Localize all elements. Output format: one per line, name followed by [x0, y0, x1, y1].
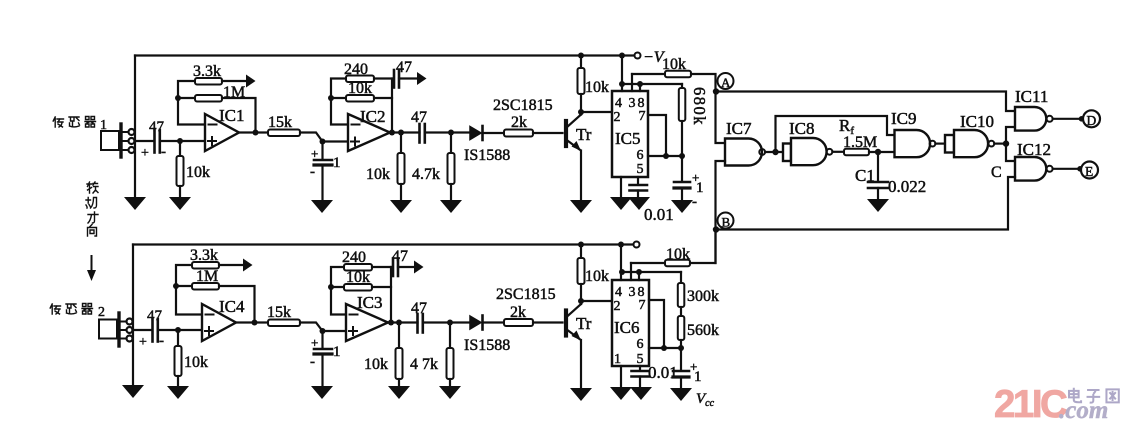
- svg-text:300k: 300k: [687, 288, 719, 305]
- op-amp IC1: [205, 106, 245, 151]
- resistor 10k (Tr top collector pull-up): [578, 56, 610, 115]
- ground (10k input top): [169, 197, 191, 210]
- wire pin7: [648, 115, 666, 156]
- node 4.7k junction: [448, 130, 454, 136]
- ground (sensor2 shield): [122, 385, 144, 398]
- wire pin1 stub: [620, 177, 622, 196]
- svg-text:+: +: [311, 146, 318, 161]
- rail open terminal: [635, 53, 641, 59]
- svg-text:1: 1: [333, 155, 341, 171]
- direction arrow down: [87, 256, 96, 281]
- svg-text:1: 1: [333, 344, 341, 360]
- ground (cap1 top): [311, 200, 333, 213]
- node junction input2: [175, 327, 181, 333]
- wire logic top rail: [716, 92, 1015, 112]
- svg-text:10k: 10k: [346, 269, 370, 286]
- svg-text:.com: .com: [1059, 397, 1108, 424]
- supply arrow (IC2): [417, 72, 427, 85]
- svg-text:1M: 1M: [196, 268, 218, 285]
- wire pin4 stub: [621, 56, 623, 92]
- node pin6-2 a: [661, 345, 667, 351]
- wire pin3 stub: [631, 74, 633, 91]
- node rail-10k bottom: [578, 242, 584, 248]
- svg-text:-: -: [310, 164, 315, 180]
- resistor 300k (IC6): [678, 272, 719, 307]
- node collector bottom: [578, 298, 584, 304]
- svg-text:15k: 15k: [268, 114, 292, 131]
- svg-text:240: 240: [344, 61, 368, 78]
- node pin6 a: [663, 153, 669, 159]
- wire top -V rail: [135, 54, 634, 56]
- svg-text:+: +: [141, 146, 149, 161]
- watermark 电子网: [1069, 388, 1119, 403]
- wire sensor2 to C: [133, 329, 151, 331]
- capacitor 47 (coupling top): [411, 109, 470, 143]
- op-amp IC2: [348, 107, 390, 151]
- resistor 560k (IC6): [678, 316, 719, 348]
- wire C to IC4 plus input: [158, 329, 202, 331]
- svg-text:1.5M: 1.5M: [843, 134, 877, 151]
- capacitor 47 (input, top): [141, 119, 166, 161]
- svg-text:47: 47: [392, 248, 408, 265]
- svg-text:B: B: [722, 215, 731, 230]
- svg-text:4: 4: [615, 285, 622, 300]
- node rail-IC6: [618, 242, 624, 248]
- wire collector to IC5 pin2: [581, 111, 612, 113]
- svg-text:47: 47: [411, 109, 427, 126]
- ground (IC5 pin1): [610, 197, 632, 210]
- svg-text:10k: 10k: [585, 268, 609, 285]
- wire feedback loop: [776, 116, 895, 152]
- supply arrow (IC4): [243, 259, 253, 272]
- svg-text:0.022: 0.022: [888, 177, 926, 196]
- wire fb right vertical: [391, 79, 393, 133]
- svg-text:IC1: IC1: [219, 106, 245, 125]
- node pin6-2 b: [678, 345, 684, 351]
- resistor 4.7k (top): [412, 133, 455, 200]
- wire Tr emitter down: [580, 151, 582, 200]
- wire pin bus: [621, 83, 682, 85]
- ground (sensor1 shield): [124, 197, 146, 210]
- svg-text:IS1588: IS1588: [464, 337, 510, 354]
- svg-text:2: 2: [614, 299, 621, 314]
- svg-text:IC3: IC3: [357, 293, 383, 312]
- node D terminal: [1083, 110, 1100, 128]
- resistor 10k (IC3 output load): [364, 323, 403, 386]
- wire pin1 stub IC6: [620, 366, 622, 386]
- ground (IC6 0.01): [630, 387, 652, 400]
- wire pin8 stub IC6: [638, 272, 640, 280]
- IC6 pin labels: [614, 285, 646, 367]
- svg-text:C: C: [991, 164, 1002, 181]
- svg-text:IC4: IC4: [219, 297, 245, 316]
- gate IC11: [1015, 87, 1053, 131]
- wire IC2 minus feedback: [331, 79, 348, 125]
- svg-text:-: -: [310, 354, 315, 370]
- svg-text:3.3k: 3.3k: [193, 63, 221, 80]
- resistor 10k (to node A): [632, 56, 716, 92]
- wire B down to channel 2: [714, 230, 716, 264]
- node IC1 out: [253, 130, 259, 136]
- wire 15k to IC2 plus: [300, 133, 348, 142]
- IC5 box: [612, 91, 648, 177]
- svg-text:240: 240: [342, 249, 366, 266]
- svg-text:10k: 10k: [348, 80, 372, 97]
- node fb1: [175, 95, 181, 101]
- wire left vertical shield 2: [132, 245, 134, 385]
- resistor 1M (IC1 feedback): [195, 84, 256, 133]
- wire IC3 output: [388, 321, 418, 323]
- wire pin3 stub IC6: [630, 263, 632, 280]
- node IC7 out: [772, 149, 778, 155]
- svg-text:2k: 2k: [511, 114, 527, 131]
- gate IC8: [783, 119, 832, 165]
- svg-text:IC2: IC2: [360, 107, 386, 126]
- transistor Tr (top): [566, 115, 592, 152]
- svg-text:10k: 10k: [585, 79, 609, 96]
- svg-text:10k: 10k: [364, 356, 388, 373]
- wire IC7 output: [765, 151, 783, 153]
- wire IC11 to D: [1053, 118, 1083, 120]
- svg-text:-: -: [159, 333, 164, 349]
- node collector top: [578, 109, 584, 115]
- sensor 1 symbol: [101, 124, 135, 157]
- wire IC1 minus feedback: [178, 81, 205, 125]
- ground (10k IC2 load): [390, 200, 412, 213]
- svg-text:560k: 560k: [687, 322, 719, 339]
- node Rf-C1: [875, 149, 881, 155]
- capacitor 1 (electrolytic, IC2 input): [310, 142, 341, 200]
- wire node C vertical: [1006, 127, 1015, 161]
- resistor 4.7k (bottom): [410, 323, 454, 386]
- svg-text:Tr: Tr: [576, 314, 592, 333]
- gate IC7: [725, 119, 765, 166]
- ground (IC6 pin1): [610, 387, 632, 400]
- svg-text:IC12: IC12: [1017, 140, 1051, 159]
- svg-text:IC7: IC7: [726, 119, 752, 138]
- wire sensor1 to C: [135, 140, 153, 142]
- svg-text:D: D: [1087, 113, 1097, 128]
- svg-text:7: 7: [639, 109, 646, 124]
- svg-text:10k: 10k: [666, 246, 690, 263]
- wire pin6: [648, 155, 682, 157]
- svg-text:3: 3: [629, 96, 636, 111]
- svg-text:IC9: IC9: [891, 109, 917, 128]
- wire IC9 to IC10: [935, 143, 945, 145]
- resistor 10k (Tr bottom collector pull-up): [578, 245, 610, 305]
- node E joint: [1077, 166, 1083, 172]
- wire IC10 out to node C: [994, 143, 1006, 145]
- ground (C1): [867, 199, 889, 212]
- node fb4: [173, 283, 179, 289]
- wire C to IC1 plus input: [160, 140, 205, 142]
- node C: [1003, 140, 1009, 146]
- svg-text:0.01: 0.01: [648, 363, 678, 382]
- node bus2 b: [636, 269, 642, 275]
- node E terminal: [1081, 162, 1098, 180]
- node pin6 b: [679, 153, 685, 159]
- ground (4.7k top): [440, 200, 462, 213]
- resistor 240 (IC3): [342, 249, 391, 271]
- node B terminal: [718, 213, 734, 230]
- wire pin7 IC6: [649, 300, 664, 348]
- sensor 2 symbol: [99, 313, 133, 346]
- svg-text:2: 2: [614, 110, 621, 125]
- capacitor 47 (input, bottom): [139, 308, 164, 350]
- svg-text:680k: 680k: [690, 87, 709, 126]
- svg-text:A: A: [721, 75, 731, 90]
- svg-text:2SC1815: 2SC1815: [493, 97, 553, 114]
- node IC4 out: [252, 320, 258, 326]
- wire IC2 output: [390, 131, 420, 133]
- IC6 box: [612, 280, 649, 366]
- resistor 240 (IC2): [344, 61, 392, 82]
- node fb2: [328, 95, 334, 101]
- svg-text:21IC: 21IC: [994, 383, 1067, 426]
- wire IC1 output: [239, 131, 268, 133]
- svg-text:7: 7: [639, 298, 646, 313]
- supply arrow (IC1): [246, 75, 256, 88]
- op-amp IC3: [346, 293, 388, 341]
- node IC2 plus: [320, 139, 326, 145]
- wire 15k to IC3 plus: [300, 323, 346, 332]
- svg-text:Vcc: Vcc: [696, 391, 715, 409]
- resistor 3.3k (IC4): [190, 247, 243, 269]
- capacitor 0.01 (IC5 pin5): [630, 177, 674, 224]
- wire pin4 stub IC6: [620, 245, 622, 281]
- svg-text:IC11: IC11: [1015, 87, 1048, 106]
- node rail-IC5: [619, 53, 625, 59]
- wire collector to IC6 pin2: [581, 300, 612, 302]
- gate IC9: [891, 109, 935, 157]
- supply arrow (IC3): [414, 261, 424, 274]
- transistor Tr (bottom): [566, 304, 592, 341]
- svg-text:3.3k: 3.3k: [190, 247, 218, 264]
- gate IC10: [945, 112, 994, 157]
- wire Tr2 emitter down: [580, 340, 582, 387]
- capacitor 47 (IC3 supply branch): [392, 248, 414, 276]
- svg-text:1: 1: [694, 369, 702, 385]
- wire B to IC7 input2: [716, 161, 726, 230]
- svg-text:1: 1: [614, 352, 621, 367]
- node IC3 plus: [320, 328, 326, 334]
- svg-text:+: +: [311, 335, 318, 350]
- svg-text:E: E: [1085, 164, 1093, 179]
- svg-text:6: 6: [637, 148, 644, 163]
- wire IC4 minus feedback: [176, 265, 202, 315]
- svg-text:2SC1815: 2SC1815: [496, 286, 556, 303]
- svg-text:IC10: IC10: [960, 112, 994, 131]
- wire IC4 output: [236, 321, 268, 323]
- svg-text:10k: 10k: [184, 354, 208, 371]
- ground (10k input bottom): [167, 386, 189, 399]
- IC5 pin labels: [614, 96, 646, 177]
- ground (cap1 bottom): [311, 386, 333, 399]
- node bus a: [619, 81, 625, 87]
- gate IC12: [1015, 140, 1053, 181]
- resistor 10k (to node B): [631, 230, 716, 267]
- node D joint: [1079, 116, 1085, 122]
- ground (Tr top emitter): [570, 200, 592, 213]
- node IC2 out a: [389, 130, 395, 136]
- node 4.7k junction bottom: [447, 320, 453, 326]
- svg-text:IC6: IC6: [614, 318, 640, 337]
- capacitor 1 (electrolytic, IC5): [674, 156, 704, 210]
- svg-text:47: 47: [147, 308, 163, 324]
- svg-text:Tr: Tr: [576, 125, 592, 144]
- op-amp IC4: [202, 297, 245, 341]
- resistor 2k (top): [504, 114, 563, 137]
- svg-text:10k: 10k: [186, 164, 210, 181]
- svg-text:5: 5: [637, 162, 644, 177]
- svg-text:6: 6: [637, 337, 644, 352]
- svg-text:IS1588: IS1588: [464, 147, 510, 164]
- svg-text:2k: 2k: [510, 304, 526, 321]
- svg-text:47: 47: [411, 300, 427, 317]
- label 传感器1: [53, 117, 107, 134]
- node IC3 out a: [388, 320, 394, 326]
- resistor 15k (top): [268, 114, 300, 136]
- capacitor 47 (coupling bottom): [411, 300, 470, 333]
- label 传感器2: [50, 304, 105, 321]
- wire IC8 out to Rf: [832, 151, 844, 153]
- ground (4.7k bottom): [439, 386, 461, 399]
- node junction input1: [177, 138, 183, 144]
- wire bottom rail: [133, 243, 633, 245]
- diode IS1588 (top): [464, 126, 510, 164]
- svg-text:4 7k: 4 7k: [410, 356, 438, 373]
- capacitor 1 (electrolytic, IC3 input): [310, 331, 341, 385]
- capacitor 0.01 (IC6 pin5): [632, 363, 678, 386]
- resistor 2k (bottom): [504, 304, 563, 326]
- resistor 10k (IC2 output load): [366, 133, 405, 200]
- svg-text:4: 4: [615, 96, 622, 111]
- node rail-10k top: [578, 53, 584, 59]
- wire 300k-560k: [680, 307, 682, 316]
- ground (IC5 electrolytic): [671, 200, 693, 213]
- node A corner: [713, 88, 719, 94]
- svg-text:IC5: IC5: [615, 129, 641, 148]
- svg-text:-: -: [161, 144, 166, 160]
- svg-text:-: -: [692, 194, 697, 210]
- node IC3 out b: [396, 320, 402, 326]
- ground (10k IC3 load): [388, 386, 410, 399]
- label 移动方向 vertical: [86, 182, 98, 236]
- node B corner: [713, 226, 719, 232]
- capacitor C1 0.022: [855, 152, 926, 198]
- wire pin6 IC6: [649, 347, 681, 349]
- svg-text:C1: C1: [855, 166, 875, 185]
- svg-text:IC8: IC8: [789, 119, 815, 138]
- resistor 15k (bottom): [267, 304, 300, 326]
- node A terminal: [718, 73, 734, 90]
- svg-text:2: 2: [98, 305, 105, 320]
- svg-text:15k: 15k: [267, 304, 291, 321]
- svg-text:10k: 10k: [662, 56, 686, 73]
- wire left vertical shield: [134, 56, 136, 197]
- ground (IC6 electrolytic): [670, 388, 692, 401]
- rail2 open terminal: [634, 242, 640, 248]
- node fb3: [328, 284, 334, 290]
- node IC2 out b: [398, 130, 404, 136]
- ground (Tr bottom emitter): [570, 388, 592, 401]
- capacitor 1 (electrolytic, IC6): [673, 348, 702, 387]
- node bus b: [637, 81, 643, 87]
- resistor 680k (IC5): [679, 84, 709, 156]
- svg-text:1: 1: [696, 180, 704, 196]
- resistor 10k (IC2 feedback): [346, 80, 392, 102]
- wire IC12 to E: [1053, 168, 1081, 170]
- node bus2 a: [619, 269, 625, 275]
- wire A to IC7 input1: [716, 92, 726, 144]
- capacitor 47 (IC2 supply branch): [394, 59, 417, 88]
- wire pin bus IC6: [621, 271, 681, 273]
- resistor 10k (input bias, bottom): [175, 330, 209, 385]
- resistor 1M (IC4 feedback): [192, 268, 255, 323]
- ground (IC5 0.01): [628, 197, 650, 210]
- svg-text:0.01: 0.01: [644, 205, 674, 224]
- svg-text:5: 5: [637, 352, 644, 367]
- svg-text:47: 47: [396, 59, 412, 76]
- diode IS1588 (bottom): [464, 316, 510, 355]
- wire logic bottom rail: [716, 177, 1015, 230]
- resistor Rf 1.5M: [839, 116, 895, 155]
- svg-text:+: +: [139, 335, 147, 350]
- wire IC3 minus feedback: [331, 267, 346, 315]
- svg-text:10k: 10k: [366, 166, 390, 183]
- wire fb3 right vertical: [390, 267, 392, 323]
- svg-text:4.7k: 4.7k: [412, 166, 440, 183]
- svg-text:47: 47: [149, 119, 165, 135]
- svg-text:3: 3: [629, 285, 636, 300]
- resistor 10k (IC3 feedback): [344, 269, 391, 291]
- resistor 10k (input bias, top): [177, 141, 211, 196]
- resistor 3.3k (IC1): [193, 63, 246, 85]
- wire pin8 stub: [639, 84, 641, 91]
